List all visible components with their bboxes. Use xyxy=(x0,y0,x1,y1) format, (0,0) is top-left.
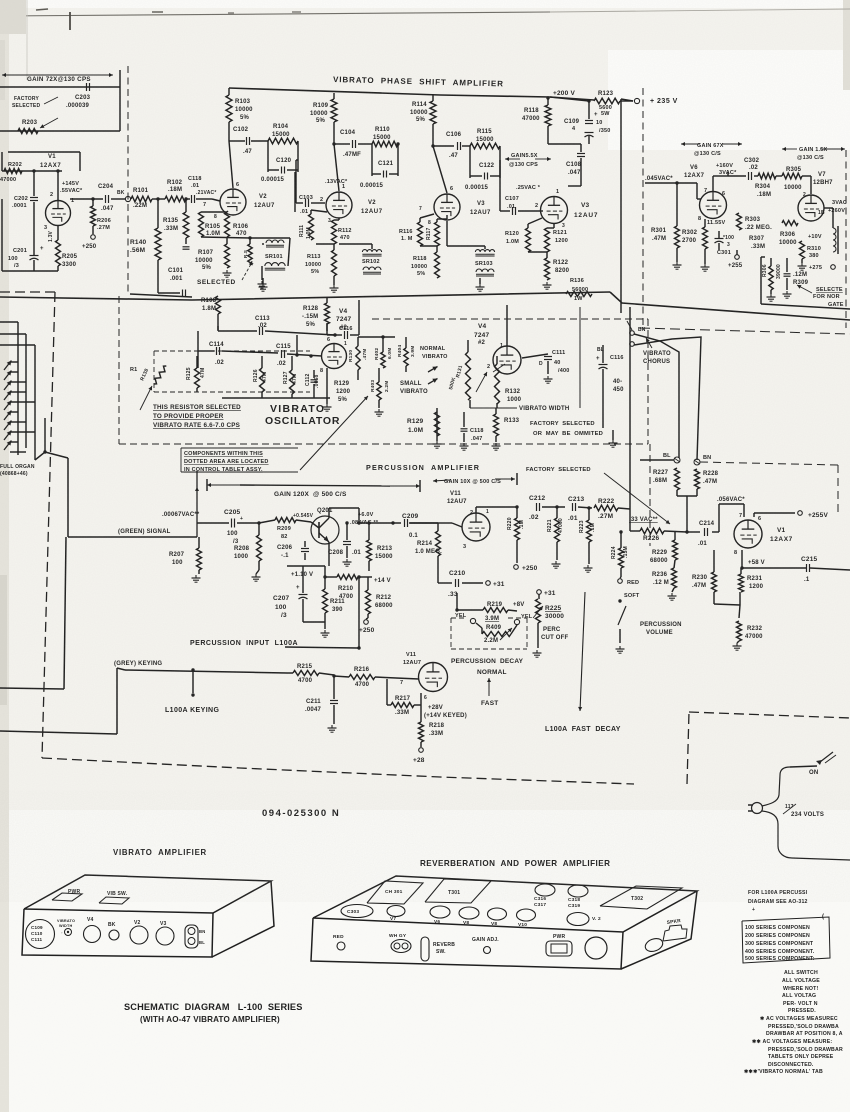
oval V9r xyxy=(488,908,507,927)
resistor R302 xyxy=(682,219,708,249)
resistor R125 xyxy=(186,356,206,392)
ground R133 xyxy=(492,443,501,450)
coil SR101 xyxy=(250,238,290,280)
label REVERB SW xyxy=(433,942,455,955)
capacitor C118 xyxy=(186,176,212,203)
resistor R130 xyxy=(348,337,368,380)
capacitor C114 xyxy=(209,342,224,366)
node keying junction xyxy=(332,674,335,677)
terminal +255V xyxy=(798,511,829,519)
power cord xyxy=(762,767,850,860)
ground gate1 xyxy=(767,290,776,301)
capacitor C211 xyxy=(305,676,338,724)
ground R208 xyxy=(252,561,261,581)
switch perc volume xyxy=(618,599,626,643)
wire plate V3a xyxy=(431,124,470,193)
tube V4a xyxy=(320,337,347,374)
label GREEN SIGNAL xyxy=(118,529,171,535)
capacitor C215 xyxy=(801,556,818,583)
dashed outer box xyxy=(0,292,850,784)
pot R225 xyxy=(533,599,564,648)
capacitor C213 xyxy=(568,496,592,522)
oval V10r xyxy=(517,909,536,928)
wire C108 down xyxy=(568,170,581,186)
resistor R307 xyxy=(749,236,765,250)
resistor R132 xyxy=(493,356,522,404)
wire plate V2b xyxy=(332,122,372,191)
dashed x846 xyxy=(845,150,847,328)
label +14V xyxy=(368,577,391,584)
label SELECTED xyxy=(197,279,236,286)
resistor R136 xyxy=(566,278,592,302)
resistor R229 xyxy=(650,532,678,564)
scan artifact top line xyxy=(0,0,850,80)
label NORMAL VIBRATO xyxy=(420,346,448,360)
resistor R102 xyxy=(165,180,186,202)
resistor R210 xyxy=(323,575,368,601)
label +1.10V xyxy=(291,572,313,578)
terminal +250 xyxy=(82,226,97,250)
node BL2 xyxy=(663,453,680,463)
resistor R212 xyxy=(366,577,394,618)
resistor R211 xyxy=(323,566,346,629)
capacitor C122 xyxy=(465,146,500,191)
label .25VAC xyxy=(516,185,541,191)
resistor R140 xyxy=(130,197,161,260)
ground C211 xyxy=(328,725,337,732)
resistor R138 xyxy=(130,365,168,386)
label V2 12AU7 xyxy=(254,194,275,209)
note vibrato normal xyxy=(744,1069,823,1075)
capacitor C108 xyxy=(548,126,585,176)
ground V7 xyxy=(798,259,807,270)
coil SR103 xyxy=(447,221,495,276)
wire +58 line xyxy=(740,550,850,570)
switch assembly arms xyxy=(4,361,11,451)
capacitor C116o xyxy=(327,300,359,339)
capacitor C212 xyxy=(529,495,565,521)
capacitor C115 xyxy=(276,344,291,367)
capacitor C104 xyxy=(340,130,361,158)
ground R207 xyxy=(192,575,201,582)
wire top bus xyxy=(229,88,550,97)
wire V11b grid xyxy=(396,678,419,679)
wire to V1p grid xyxy=(687,504,744,532)
oval V7r xyxy=(387,906,405,923)
plate T301 xyxy=(425,879,491,903)
label V2 12AU7 b xyxy=(361,200,383,215)
wire x630 down xyxy=(629,307,631,531)
capacitor C206 xyxy=(277,541,309,560)
label FAST xyxy=(481,700,498,707)
label REVERB title xyxy=(420,859,610,868)
terminal RED xyxy=(618,577,640,586)
label selected gate xyxy=(797,285,844,308)
label V1 12AX7 xyxy=(40,154,61,169)
label L100A KEYING xyxy=(165,707,219,714)
wire V1 box xyxy=(2,152,80,171)
resistor R122 xyxy=(528,252,570,280)
resistor R101 xyxy=(131,188,152,209)
dashed y330 right xyxy=(640,328,850,334)
note components within xyxy=(181,448,298,473)
label 11.55V xyxy=(707,220,725,226)
wire green signal xyxy=(0,452,199,689)
terminal BN1 xyxy=(627,321,646,335)
tube V11a xyxy=(462,509,490,550)
capacitor C204 xyxy=(98,184,114,212)
connector BN BL xyxy=(185,925,205,948)
resistor R203 xyxy=(18,118,58,134)
wire emitter net xyxy=(287,548,329,566)
tube V6 xyxy=(698,188,727,222)
ground C111 xyxy=(544,376,553,383)
wire cathode V2a xyxy=(201,211,252,240)
ground gate2 xyxy=(783,291,792,298)
capacitor C109 xyxy=(550,97,611,144)
resistor R106 xyxy=(225,212,249,237)
terminal +31a xyxy=(486,581,505,588)
resistor R226 xyxy=(630,528,687,542)
wire BL line xyxy=(634,334,679,458)
wire V1 out xyxy=(70,198,125,200)
label +160V xyxy=(716,163,737,176)
resistor R218 xyxy=(419,705,445,747)
resistor R107 xyxy=(195,237,252,271)
label V6 12AX7 xyxy=(684,165,705,179)
oval V2r xyxy=(567,913,601,926)
resistor R306 xyxy=(779,221,798,247)
label VIBRATO AMPLIFIER title xyxy=(113,848,207,857)
resistor R114 xyxy=(410,95,436,124)
wire V11a plate xyxy=(476,507,517,513)
label V3 12AU7 b xyxy=(574,202,598,219)
resistor R214 xyxy=(415,523,442,583)
dashed x643 xyxy=(642,88,644,330)
label PERCUSSION AMPLIFIER xyxy=(366,463,480,472)
resistor R115 xyxy=(470,129,500,149)
tube V2a xyxy=(203,182,246,220)
label +145V xyxy=(60,181,83,194)
wire plate V2a xyxy=(229,122,268,188)
wire +6V node xyxy=(329,508,359,512)
ground R211 xyxy=(303,622,330,637)
ground bus3 xyxy=(476,278,485,291)
label GAIN 120X xyxy=(207,479,420,498)
oval V8r xyxy=(459,907,479,926)
ground C208 xyxy=(343,559,352,566)
reverb chassis box xyxy=(311,876,697,969)
resistor R133 xyxy=(494,408,520,442)
vibrato chassis box xyxy=(22,875,274,957)
resistor R135 xyxy=(163,197,190,249)
resistor R123 xyxy=(550,91,633,117)
inner dashed box xyxy=(154,351,310,392)
label V3 12AU7 xyxy=(470,201,491,216)
plate CH301 xyxy=(367,881,423,904)
tube V3a xyxy=(419,186,460,226)
oval C318 xyxy=(568,885,588,909)
resistor R111 xyxy=(295,172,327,240)
arrow fast decay xyxy=(578,592,585,711)
capacitor C113 xyxy=(218,316,337,337)
dashed R409 box xyxy=(451,618,527,649)
label VIBRATO OSCILLATOR xyxy=(265,403,340,427)
label R129b xyxy=(407,418,424,434)
resistor R232 xyxy=(737,621,764,641)
resistor R215 xyxy=(293,664,334,684)
label percussion input xyxy=(190,575,361,649)
capacitor C214 xyxy=(698,521,715,547)
ground bus1 xyxy=(259,278,268,291)
label 094-025300 N xyxy=(262,808,340,819)
label GAIN 5.5X xyxy=(505,153,551,168)
resistor R301 xyxy=(651,181,680,248)
label +200V xyxy=(553,90,575,97)
resistor R207 xyxy=(169,537,202,574)
coil SR102 xyxy=(339,244,382,274)
resistor R112 xyxy=(332,218,352,244)
resistor R213 xyxy=(367,521,394,571)
resistor R223 xyxy=(579,506,596,564)
label Q201 xyxy=(317,508,333,514)
pot R131 xyxy=(448,340,487,400)
ground V6b xyxy=(701,249,710,271)
label .00067VAC xyxy=(162,512,200,518)
label 3VAC right xyxy=(828,200,847,214)
ground R236 xyxy=(668,593,677,600)
dashed percussion top xyxy=(700,462,838,515)
resistor R103 xyxy=(226,88,253,122)
resistor R120 xyxy=(505,218,542,252)
capacitor C205 xyxy=(197,509,259,545)
label V11b xyxy=(403,652,421,666)
capacitor C208 xyxy=(328,521,361,558)
wire R129b xyxy=(435,408,440,440)
resistor R403 xyxy=(370,368,390,408)
dashed osc box xyxy=(119,296,650,546)
control VIBRATO WIDTH xyxy=(57,919,75,936)
oval C303 xyxy=(341,905,373,918)
resistor R129o xyxy=(334,381,351,403)
node L100A keying xyxy=(191,668,194,696)
capacitor C116e xyxy=(596,345,624,428)
wire osc bottom xyxy=(222,368,330,398)
resistor R208 xyxy=(234,521,262,561)
wire V6 grid xyxy=(645,183,701,199)
transistor Q201 body xyxy=(296,512,339,548)
terminal +275 xyxy=(809,265,835,271)
wire V11a grid xyxy=(438,523,462,527)
wire V1 bottom xyxy=(2,171,58,271)
label GAIN 10X xyxy=(433,473,517,485)
capacitor C107 xyxy=(500,160,540,215)
resistor R108 xyxy=(201,296,221,330)
ground R221 xyxy=(552,561,561,568)
notes switches xyxy=(782,970,820,1014)
capacitor C120 xyxy=(261,141,298,183)
wire cathode join xyxy=(714,592,740,618)
tube V1 xyxy=(44,192,74,231)
capacitor C112 xyxy=(305,370,320,398)
wire V4b plate xyxy=(506,305,508,346)
label V7 12BH7 xyxy=(813,172,833,186)
ground V3b xyxy=(543,282,552,289)
capacitor C302 xyxy=(713,158,760,192)
resistor R222 xyxy=(594,498,630,520)
wire right bus vertical xyxy=(621,99,633,313)
wire osc mid xyxy=(198,331,322,368)
tube V4b xyxy=(487,343,521,374)
resistor R113 xyxy=(305,244,337,276)
capacitor C201 xyxy=(8,225,44,271)
label SMALL VIBRATO xyxy=(400,381,428,395)
paper grain overlay xyxy=(0,0,850,820)
terminal +28 xyxy=(413,748,425,764)
label SCHEMATIC DIAGRAM xyxy=(124,1002,303,1012)
capacitor C101 xyxy=(158,260,186,297)
label FULL ORGAN xyxy=(0,464,35,477)
hole big xyxy=(585,937,607,959)
resistor R303 xyxy=(737,213,773,231)
label SOFT xyxy=(624,593,640,599)
label .21VAC xyxy=(196,190,216,196)
resistor R209 xyxy=(259,518,296,541)
resistor R126 xyxy=(253,356,268,398)
resistor R221 xyxy=(547,505,564,560)
terminal +255b xyxy=(728,250,743,269)
label 117 234 VOLTS xyxy=(783,804,824,818)
label 33VAC xyxy=(629,517,658,523)
resistor R227 xyxy=(653,468,680,490)
tube V3b xyxy=(535,189,568,229)
capacitor C121 xyxy=(360,142,400,189)
oval C316 xyxy=(534,884,555,908)
tube V2b xyxy=(320,184,352,224)
resistor R104 xyxy=(268,124,298,144)
wire left edge bus xyxy=(2,199,34,271)
switch assembly wires xyxy=(0,322,47,460)
capacitor C106 xyxy=(446,132,462,159)
resistor R220 xyxy=(507,505,525,540)
switch ON xyxy=(790,752,836,776)
switch normal xyxy=(428,367,438,385)
tube V1p xyxy=(734,513,762,556)
ground R225 xyxy=(533,650,542,657)
tube V7 xyxy=(798,192,825,221)
resistor R305 xyxy=(776,167,811,194)
socket V2 xyxy=(130,920,148,944)
slot reverb xyxy=(421,937,429,961)
note ac voltages 2 xyxy=(752,1039,843,1068)
label VIBRATO CHORUS xyxy=(643,338,671,365)
series list xyxy=(745,925,815,962)
capacitor C110 xyxy=(461,412,484,442)
resistor R116 xyxy=(399,214,434,246)
resistor R402 xyxy=(358,335,395,368)
resistor R306v xyxy=(762,258,782,290)
wire decay net xyxy=(455,593,483,612)
arrow normal xyxy=(487,678,491,696)
socket BK xyxy=(108,922,119,940)
resistor R118top xyxy=(522,96,551,126)
capacitor C301 xyxy=(715,231,735,256)
note this resistor xyxy=(140,386,241,429)
ground R223 xyxy=(584,565,593,572)
label PERCUSSION VOLUME xyxy=(640,622,682,636)
oval right face xyxy=(643,936,664,953)
resistor R205 xyxy=(56,225,78,271)
ground R403 xyxy=(375,409,384,416)
dashed boundary xyxy=(127,66,129,293)
capacitor C111 xyxy=(522,350,570,374)
capacitor C210 xyxy=(438,570,483,598)
resistor R310 xyxy=(800,241,821,259)
socket C109 C110 C111 xyxy=(26,920,55,949)
cutout PWR xyxy=(52,889,82,901)
capacitor C102 xyxy=(233,127,252,155)
resistor R118b xyxy=(411,246,440,278)
label +28V keyed xyxy=(424,705,467,719)
label .13VAC xyxy=(325,179,348,185)
resistor R105 xyxy=(199,212,221,237)
resistor R128 xyxy=(302,297,330,331)
ground R129b xyxy=(433,440,442,448)
terminal BL1 xyxy=(630,342,635,347)
wire collector bus xyxy=(357,508,438,525)
wire bottom bus xyxy=(0,292,850,320)
resistor R236 xyxy=(652,560,677,592)
resistor R219 xyxy=(483,602,524,622)
label GAIN 1.5X xyxy=(782,147,845,161)
label GAIN 67X xyxy=(681,142,742,157)
resistor R404 xyxy=(397,337,416,372)
label .045VAC xyxy=(645,176,673,182)
terminal +235V xyxy=(634,98,677,105)
label GREY KEYING xyxy=(114,661,162,667)
cutout VIB SW xyxy=(99,891,129,904)
label factory selected osc xyxy=(530,421,603,437)
node BN2 xyxy=(694,455,711,465)
label FACTORY SELECTED xyxy=(12,96,58,109)
oval V6r xyxy=(430,906,450,925)
terminal +31b xyxy=(537,590,556,599)
conn WHGY xyxy=(389,933,411,953)
ground right osc xyxy=(609,430,618,447)
label .12M R309 xyxy=(793,272,809,286)
resistor R127 xyxy=(283,356,298,398)
label L100A FAST DECAY xyxy=(545,726,621,733)
capacitor gate xyxy=(784,258,791,290)
wire grid V3b xyxy=(540,210,543,212)
resistor R109 xyxy=(310,93,337,124)
wire BN line xyxy=(634,337,701,460)
label YEL L xyxy=(455,613,476,624)
terminal +250c xyxy=(514,540,538,572)
tube V11b xyxy=(400,663,448,702)
wire selected gate box xyxy=(761,257,850,309)
label V1 12AX7 p xyxy=(770,527,793,543)
resistor R216 xyxy=(334,667,396,688)
resistor R230 xyxy=(692,550,717,592)
plug xyxy=(748,803,763,814)
pot R409 xyxy=(476,623,517,644)
resistor R117 xyxy=(426,215,447,246)
ground bus2 xyxy=(330,276,339,292)
label VIBRATO WIDTH xyxy=(470,307,580,412)
gain label arrow xyxy=(2,73,113,77)
resistor R217 xyxy=(387,679,421,716)
